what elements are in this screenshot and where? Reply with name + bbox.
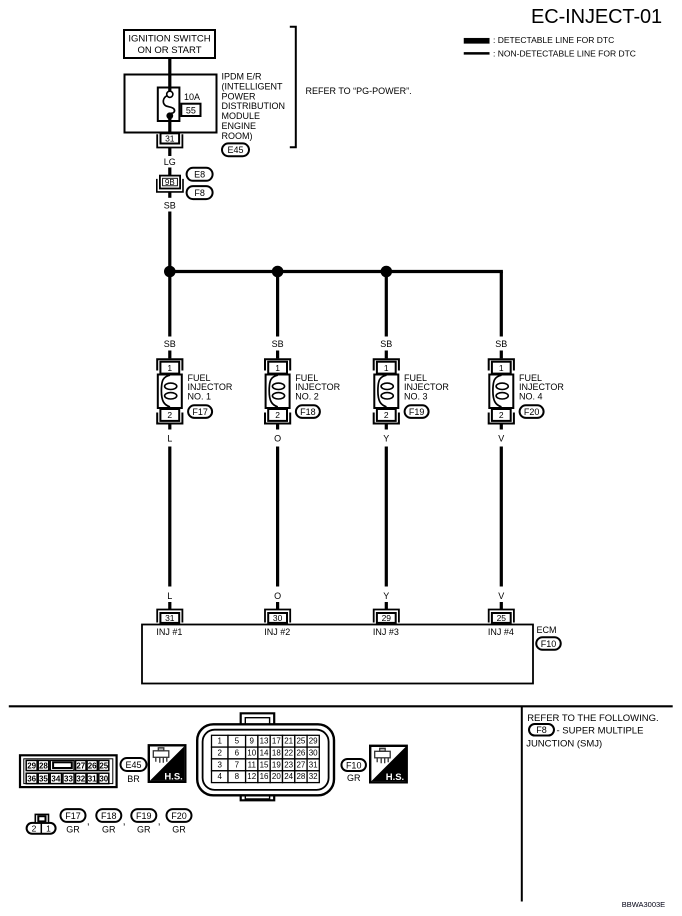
svg-text:Y: Y	[383, 433, 389, 443]
svg-text:13: 13	[260, 737, 269, 746]
svg-text:F20: F20	[171, 811, 187, 821]
svg-text:GR: GR	[66, 825, 80, 835]
svg-text:2: 2	[275, 410, 280, 420]
svg-text:POWER: POWER	[222, 91, 257, 101]
svg-text:EC-INJECT-01: EC-INJECT-01	[531, 6, 662, 28]
svg-text:H.S.: H.S.	[386, 772, 404, 783]
svg-text:7: 7	[235, 760, 240, 769]
svg-text:L: L	[167, 591, 172, 601]
svg-text:H.S.: H.S.	[164, 771, 182, 782]
svg-text:27: 27	[76, 761, 85, 770]
svg-text:30: 30	[99, 774, 108, 783]
svg-text:27: 27	[296, 760, 305, 769]
svg-text:SB: SB	[164, 201, 176, 211]
svg-text:17: 17	[272, 737, 281, 746]
svg-text:,: ,	[87, 817, 90, 828]
svg-text:25: 25	[99, 761, 108, 770]
svg-text:55: 55	[186, 105, 196, 115]
svg-text:L: L	[167, 433, 172, 443]
svg-text:30: 30	[309, 749, 318, 758]
svg-text:25: 25	[296, 737, 305, 746]
svg-text:IPDM E/R: IPDM E/R	[222, 72, 263, 82]
svg-text:GR: GR	[347, 773, 361, 783]
svg-text:1: 1	[218, 737, 223, 746]
svg-text:29: 29	[382, 613, 392, 623]
svg-text:INJECTOR: INJECTOR	[295, 382, 340, 392]
svg-text:F8: F8	[194, 188, 205, 198]
svg-text:6: 6	[235, 749, 240, 758]
svg-text:18: 18	[272, 749, 281, 758]
svg-text:NO. 2: NO. 2	[295, 392, 319, 402]
svg-text:Y: Y	[383, 591, 389, 601]
svg-text:31: 31	[88, 774, 97, 783]
svg-text:8: 8	[235, 772, 240, 781]
svg-text:INJ #2: INJ #2	[264, 627, 290, 637]
svg-text:26: 26	[88, 761, 97, 770]
svg-text:: DETECTABLE LINE FOR DTC: : DETECTABLE LINE FOR DTC	[493, 35, 614, 45]
svg-text:32: 32	[309, 772, 318, 781]
svg-text:25: 25	[497, 613, 507, 623]
svg-text:O: O	[274, 433, 281, 443]
svg-text:F17: F17	[192, 407, 208, 417]
svg-text:REFER TO “PG-POWER”.: REFER TO “PG-POWER”.	[306, 86, 412, 96]
svg-text:V: V	[498, 591, 504, 601]
svg-text:33: 33	[64, 774, 73, 783]
svg-text:ON OR START: ON OR START	[137, 45, 201, 56]
svg-text:1: 1	[46, 823, 51, 833]
svg-text:ENGINE: ENGINE	[222, 121, 257, 131]
svg-text:INJ #1: INJ #1	[156, 627, 182, 637]
svg-text:F18: F18	[300, 407, 316, 417]
svg-text:F18: F18	[101, 811, 117, 821]
svg-text:2: 2	[218, 749, 223, 758]
svg-text:36: 36	[27, 774, 36, 783]
svg-text:14: 14	[260, 749, 269, 758]
svg-text:32: 32	[76, 774, 85, 783]
svg-text:15: 15	[260, 760, 269, 769]
svg-text:BR: BR	[127, 774, 140, 784]
svg-text:1: 1	[275, 363, 280, 373]
svg-text:E45: E45	[227, 145, 243, 155]
svg-text:BBWA3003E: BBWA3003E	[622, 900, 666, 909]
svg-text:21: 21	[284, 737, 293, 746]
svg-text:V: V	[498, 433, 504, 443]
svg-text:GR: GR	[172, 825, 186, 835]
svg-text:29: 29	[27, 761, 36, 770]
svg-text:28: 28	[296, 772, 305, 781]
svg-text:F10: F10	[541, 639, 557, 649]
svg-text:E45: E45	[125, 760, 141, 770]
svg-text:24: 24	[284, 772, 293, 781]
svg-text:10: 10	[247, 749, 256, 758]
svg-text:F17: F17	[65, 811, 81, 821]
svg-text:34: 34	[51, 774, 60, 783]
svg-text:SB: SB	[272, 339, 284, 349]
svg-text:- SUPER MULTIPLE: - SUPER MULTIPLE	[557, 725, 644, 736]
svg-text:IGNITION SWITCH: IGNITION SWITCH	[128, 34, 210, 45]
svg-text:INJ #4: INJ #4	[488, 627, 514, 637]
svg-text:REFER TO THE FOLLOWING.: REFER TO THE FOLLOWING.	[527, 713, 658, 724]
svg-text:2: 2	[499, 410, 504, 420]
svg-text:5: 5	[235, 737, 240, 746]
svg-text:16: 16	[260, 772, 269, 781]
svg-text:11: 11	[248, 760, 257, 769]
svg-text:,: ,	[123, 817, 126, 828]
svg-text:(INTELLIGENT: (INTELLIGENT	[222, 81, 284, 91]
svg-text:2: 2	[384, 410, 389, 420]
svg-text:O: O	[274, 591, 281, 601]
svg-text:20: 20	[272, 772, 281, 781]
svg-text:E8: E8	[194, 170, 205, 180]
svg-text:29: 29	[309, 737, 318, 746]
svg-text:JUNCTION (SMJ): JUNCTION (SMJ)	[526, 739, 602, 750]
svg-text:F19: F19	[136, 811, 152, 821]
svg-text:23: 23	[284, 760, 293, 769]
svg-text:DISTRIBUTION: DISTRIBUTION	[222, 101, 286, 111]
svg-text:9B: 9B	[165, 178, 175, 187]
svg-text:2: 2	[32, 823, 37, 833]
svg-text:30: 30	[273, 613, 283, 623]
svg-text:31: 31	[165, 613, 175, 623]
svg-text:GR: GR	[102, 825, 116, 835]
svg-text:2: 2	[167, 410, 172, 420]
svg-text:12: 12	[247, 772, 256, 781]
svg-text:NO. 1: NO. 1	[188, 392, 212, 402]
svg-text:35: 35	[39, 774, 48, 783]
svg-text:22: 22	[284, 749, 293, 758]
svg-text:10A: 10A	[184, 92, 200, 102]
svg-text:GR: GR	[137, 825, 151, 835]
svg-text:26: 26	[296, 749, 305, 758]
svg-text:19: 19	[272, 760, 281, 769]
svg-text:F10: F10	[346, 760, 362, 770]
svg-text:1: 1	[167, 363, 172, 373]
svg-text:NO. 3: NO. 3	[404, 392, 428, 402]
svg-text:INJ #3: INJ #3	[373, 627, 399, 637]
svg-text:1: 1	[384, 363, 389, 373]
svg-text:31: 31	[309, 760, 318, 769]
svg-text:: NON-DETECTABLE LINE FOR DTC: : NON-DETECTABLE LINE FOR DTC	[493, 49, 636, 59]
svg-text:ECM: ECM	[537, 625, 557, 635]
svg-text:SB: SB	[380, 339, 392, 349]
svg-text:INJECTOR: INJECTOR	[519, 382, 564, 392]
svg-text:SB: SB	[164, 339, 176, 349]
svg-text:F19: F19	[409, 407, 425, 417]
svg-text:INJECTOR: INJECTOR	[188, 382, 233, 392]
svg-text:31: 31	[165, 134, 175, 144]
svg-text:ROOM): ROOM)	[222, 131, 253, 141]
svg-text:28: 28	[39, 761, 48, 770]
svg-text:9: 9	[250, 737, 255, 746]
svg-text:,: ,	[158, 817, 161, 828]
svg-text:3: 3	[218, 760, 223, 769]
svg-text:F8: F8	[536, 725, 547, 735]
svg-text:1: 1	[499, 363, 504, 373]
svg-text:INJECTOR: INJECTOR	[404, 382, 449, 392]
svg-text:F20: F20	[524, 407, 540, 417]
svg-text:LG: LG	[164, 157, 176, 167]
svg-text:NO. 4: NO. 4	[519, 392, 543, 402]
svg-text:4: 4	[218, 772, 223, 781]
svg-text:SB: SB	[495, 339, 507, 349]
svg-text:MODULE: MODULE	[222, 111, 261, 121]
